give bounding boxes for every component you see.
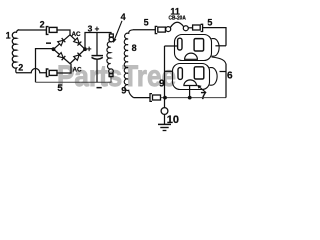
svg-text:3: 3 bbox=[88, 23, 93, 33]
wire coil bottom to terminal bbox=[134, 97, 150, 99]
svg-text:+: + bbox=[87, 45, 92, 54]
terminal 5 (left): bracket and box bbox=[155, 26, 165, 33]
junction dot left vertex bbox=[52, 47, 56, 51]
terminal (bottom): bracket and box bbox=[150, 94, 161, 102]
diode D4 (bottom-right edge) bbox=[74, 53, 82, 61]
wire neutral tap to receptacle 7 bbox=[165, 70, 173, 72]
svg-text:9: 9 bbox=[159, 78, 165, 89]
wire hot tap to receptacle 6 bbox=[215, 45, 226, 47]
svg-text:5: 5 bbox=[207, 18, 212, 28]
neutral rail bbox=[164, 46, 166, 98]
svg-text:5: 5 bbox=[57, 83, 63, 94]
excitation winding coil (between connectors) bbox=[107, 42, 111, 69]
wire neutral tap to receptacle 6 bbox=[165, 45, 178, 47]
arrow from label 4 to connector bbox=[113, 21, 122, 43]
wire connector to ground bbox=[164, 114, 166, 124]
svg-text:+: + bbox=[95, 25, 100, 34]
wire coil top to breaker bbox=[133, 29, 155, 31]
rotor winding coil 1 bbox=[12, 30, 19, 73]
wire bottom negative rail bbox=[36, 76, 112, 82]
capacitor C3 bbox=[92, 33, 104, 83]
junction dot (receptacle ground) bbox=[188, 96, 192, 100]
terminal 5 (right): box and bracket bbox=[188, 24, 203, 31]
svg-text:4: 4 bbox=[121, 12, 126, 22]
wire receptacle 7 ground to bottom wire bbox=[189, 86, 191, 98]
receptacle 6 (upper outlet) bbox=[175, 35, 220, 61]
brush 2 (top): bracket and box bbox=[46, 27, 57, 35]
ground symbol bbox=[158, 124, 171, 130]
stator main winding coil 8/9 bbox=[124, 30, 133, 98]
wire rotor top to brush bbox=[18, 29, 46, 31]
circuit breaker 11 CB-20A bbox=[165, 22, 188, 31]
receptacle 7 (lower outlet) bbox=[173, 64, 218, 90]
label minus (capacitor negative) bbox=[97, 87, 102, 89]
junction dot (ground node) bbox=[163, 96, 167, 100]
wire hot rail bottom corner bbox=[225, 64, 227, 98]
wire brush to bridge AC top bbox=[57, 30, 70, 35]
svg-text:2: 2 bbox=[18, 63, 23, 73]
svg-text:AC: AC bbox=[73, 67, 83, 74]
bridge rectifier: diamond edges bbox=[54, 35, 86, 64]
svg-text:CB-20A: CB-20A bbox=[169, 16, 186, 22]
svg-text:6: 6 bbox=[227, 71, 233, 82]
svg-text:5: 5 bbox=[144, 18, 149, 28]
node minus (bridge negative) bbox=[46, 42, 51, 44]
svg-text:AC: AC bbox=[72, 31, 82, 38]
diode D1 (top-left edge) bbox=[58, 38, 66, 46]
brush 2 (bottom): bracket and box bbox=[46, 69, 57, 77]
wire receptacle 7 right to hot rail bbox=[220, 71, 227, 73]
wire rotor bottom to brush with hop bbox=[16, 69, 46, 73]
connector circle (ground lead) bbox=[161, 108, 168, 115]
svg-text:9: 9 bbox=[121, 85, 126, 96]
svg-text:2: 2 bbox=[40, 20, 45, 30]
wire junction to ground connector bbox=[164, 98, 166, 108]
diode D2 (top-right edge) bbox=[74, 38, 82, 46]
wire breaker to hot rail bbox=[203, 28, 226, 46]
wire bridge negative to left rail bbox=[36, 49, 54, 83]
connector (bottom bullet): circle and box bbox=[109, 69, 114, 77]
connector 4 (top bullet): box and circle bbox=[109, 34, 114, 42]
wire terminal to hot rail bottom bbox=[161, 97, 227, 99]
svg-text:8: 8 bbox=[132, 43, 137, 53]
svg-text:1: 1 bbox=[6, 31, 11, 41]
junction dot right vertex bbox=[83, 47, 87, 51]
wire brush to bridge AC bottom bbox=[57, 64, 71, 73]
diode D3 (bottom-left edge) bbox=[58, 52, 66, 60]
wire strap between receptacles bbox=[212, 57, 226, 64]
wire bridge positive up and right to capacitor/connector bbox=[85, 33, 111, 50]
arrow from label 7 to ground slot bbox=[197, 85, 206, 93]
